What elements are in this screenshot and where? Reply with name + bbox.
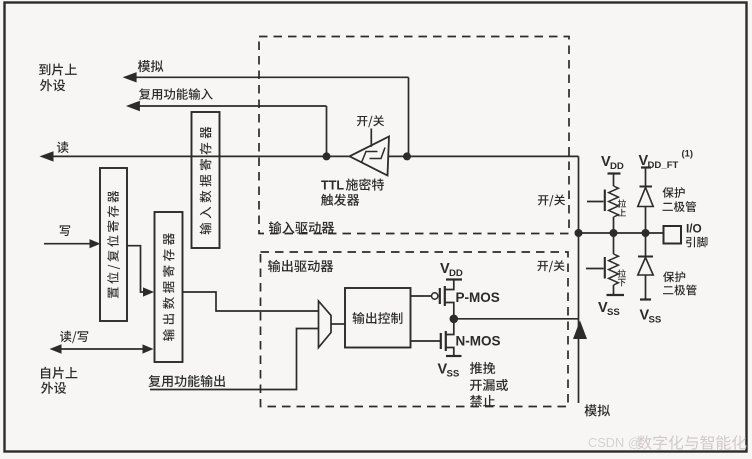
transistor P-MOS Q1 (439, 288, 441, 304)
read/write right arrowhead (143, 344, 154, 353)
svg-text:SS: SS (649, 315, 662, 326)
set/reset wire arrowhead (143, 287, 154, 296)
wire VDD to pull-up resistor (613, 174, 615, 187)
label bit set/reset register (107, 191, 120, 298)
I/O pin pad box (664, 226, 682, 244)
wire diode D1 to pad (645, 207, 647, 234)
wire pad to pull-down resistor (613, 233, 615, 254)
label on/off (schmitt) (357, 115, 384, 127)
label protection diode lower l2 (663, 285, 697, 296)
label to-on-chip-peripheral line2 (40, 79, 65, 91)
wire pull-up resistor to pad (613, 217, 615, 233)
TTL schmitt trigger U1 (350, 137, 390, 176)
diode node dot (642, 229, 650, 237)
label pull-up hanzi (618, 199, 626, 207)
VSS rail bar (diode D2) (640, 298, 651, 300)
AF output mux (319, 301, 332, 348)
schmitt output node dot (403, 152, 411, 160)
input driver dashed box (259, 37, 569, 234)
transistor N-MOS Q2 (440, 333, 442, 349)
label open-drain (470, 379, 508, 391)
AFI arrowhead (126, 101, 140, 111)
label protection diode upper l2 (663, 201, 697, 212)
label read/write (60, 331, 88, 344)
svg-text:TTL: TTL (321, 178, 344, 192)
write wire (44, 243, 92, 245)
label read (57, 141, 69, 153)
wire mux to output control (331, 323, 345, 325)
svg-text:CSDN @: CSDN @ (588, 435, 641, 450)
schmitt on/off switch stem (370, 129, 372, 147)
alternate function output wire (150, 329, 319, 390)
label on/off (pull-down) (537, 260, 564, 272)
input data register box (192, 112, 220, 248)
schmitt output wire (389, 155, 579, 157)
wire analog tap vertical (408, 77, 410, 156)
svg-text:DD_FT: DD_FT (648, 160, 679, 171)
protection diode D1 (to VDD_FT) (640, 186, 653, 188)
label protection diode upper l1 (663, 187, 685, 198)
wire N-MOS gate (411, 340, 441, 342)
wire pull-down resistor to VSS (613, 285, 615, 295)
label from-on-chip-peripheral line1 (41, 367, 77, 379)
label output data register (163, 233, 175, 341)
VDD rail bar (pull-up) (608, 172, 621, 174)
label to-on-chip-peripheral line1 (39, 63, 77, 75)
read wire left (47, 155, 351, 157)
svg-text:SS: SS (607, 307, 620, 318)
wire P-MOS gate (411, 295, 432, 297)
label from-on-chip-peripheral line2 (41, 382, 66, 394)
output control box (345, 288, 411, 348)
svg-text:DD: DD (449, 268, 463, 279)
label TTL schmitt line1 CJK (346, 178, 384, 190)
svg-text:DD: DD (610, 161, 624, 172)
bus node dot (575, 229, 583, 237)
analog output arrowhead (123, 72, 137, 82)
wire vertical I/O bus (578, 156, 580, 403)
bit set/reset register box (100, 168, 127, 321)
watermark CSDN CJK (637, 435, 746, 450)
alternate function input wire (133, 105, 327, 107)
label output driver (268, 260, 333, 272)
label input driver (269, 221, 334, 233)
output data register box (155, 212, 183, 362)
label push-pull (470, 362, 495, 374)
label TTL schmitt line2 (321, 194, 359, 206)
wire AFI tap vertical (326, 106, 328, 156)
pull-up on/off switch (587, 201, 604, 203)
wire diode D2 to VSS (645, 275, 647, 300)
label I/O pin hanzi (686, 237, 708, 248)
label analog (top) (138, 60, 164, 72)
wire VDD_FT to diode (645, 168, 647, 187)
svg-text:I/O: I/O (686, 222, 702, 236)
label write (60, 225, 70, 236)
write arrowhead (90, 239, 101, 248)
analog bottom arrowhead (573, 321, 587, 340)
label pull-up hanzi2 (618, 209, 626, 217)
VSS rail bar (pull-down) (607, 294, 625, 296)
analog output wire (130, 76, 409, 78)
protection diode D2 (to VSS) (638, 256, 653, 258)
MOSFET output node dot (450, 315, 459, 324)
label on/off (pull-up) (538, 195, 565, 207)
svg-text:SS: SS (447, 369, 460, 380)
resistor pull-down (609, 254, 619, 285)
schmitt input node dot (323, 152, 331, 160)
pull-up node dot (610, 229, 618, 237)
label analog (bottom) (585, 404, 611, 416)
label protection diode lower l1 (663, 271, 685, 282)
label pull-down hanzi (618, 269, 626, 277)
VDD_FT rail bar (641, 166, 651, 168)
wire pad to diode D2 (645, 233, 647, 257)
P-MOS gate bubble (432, 293, 438, 299)
label output control (353, 312, 403, 324)
VSS rail bar (N-MOS) (446, 355, 462, 357)
label disabled (470, 395, 495, 407)
read arrowhead (40, 151, 54, 161)
wire MOSFET output to bus (454, 318, 579, 320)
output driver dashed box (261, 252, 569, 407)
read/write left arrowhead (50, 344, 62, 354)
wire I/O pad row (579, 232, 664, 234)
VDD rail bar (P-MOS) (446, 278, 462, 280)
svg-text:P-MOS: P-MOS (456, 290, 500, 305)
wire output register to mux (183, 292, 319, 311)
read/write wire (57, 348, 146, 350)
wire set/reset to output register (127, 246, 146, 292)
svg-text:(1): (1) (682, 148, 693, 159)
schmitt hysteresis symbol (362, 148, 386, 163)
label alternate function input (139, 88, 213, 100)
label input data register (200, 127, 212, 235)
svg-text:N-MOS: N-MOS (456, 333, 501, 348)
label pull-down hanzi2 (618, 279, 626, 287)
resistor pull-up (609, 186, 619, 217)
label alternate function output (149, 375, 225, 387)
pull-down on/off switch (586, 268, 604, 270)
